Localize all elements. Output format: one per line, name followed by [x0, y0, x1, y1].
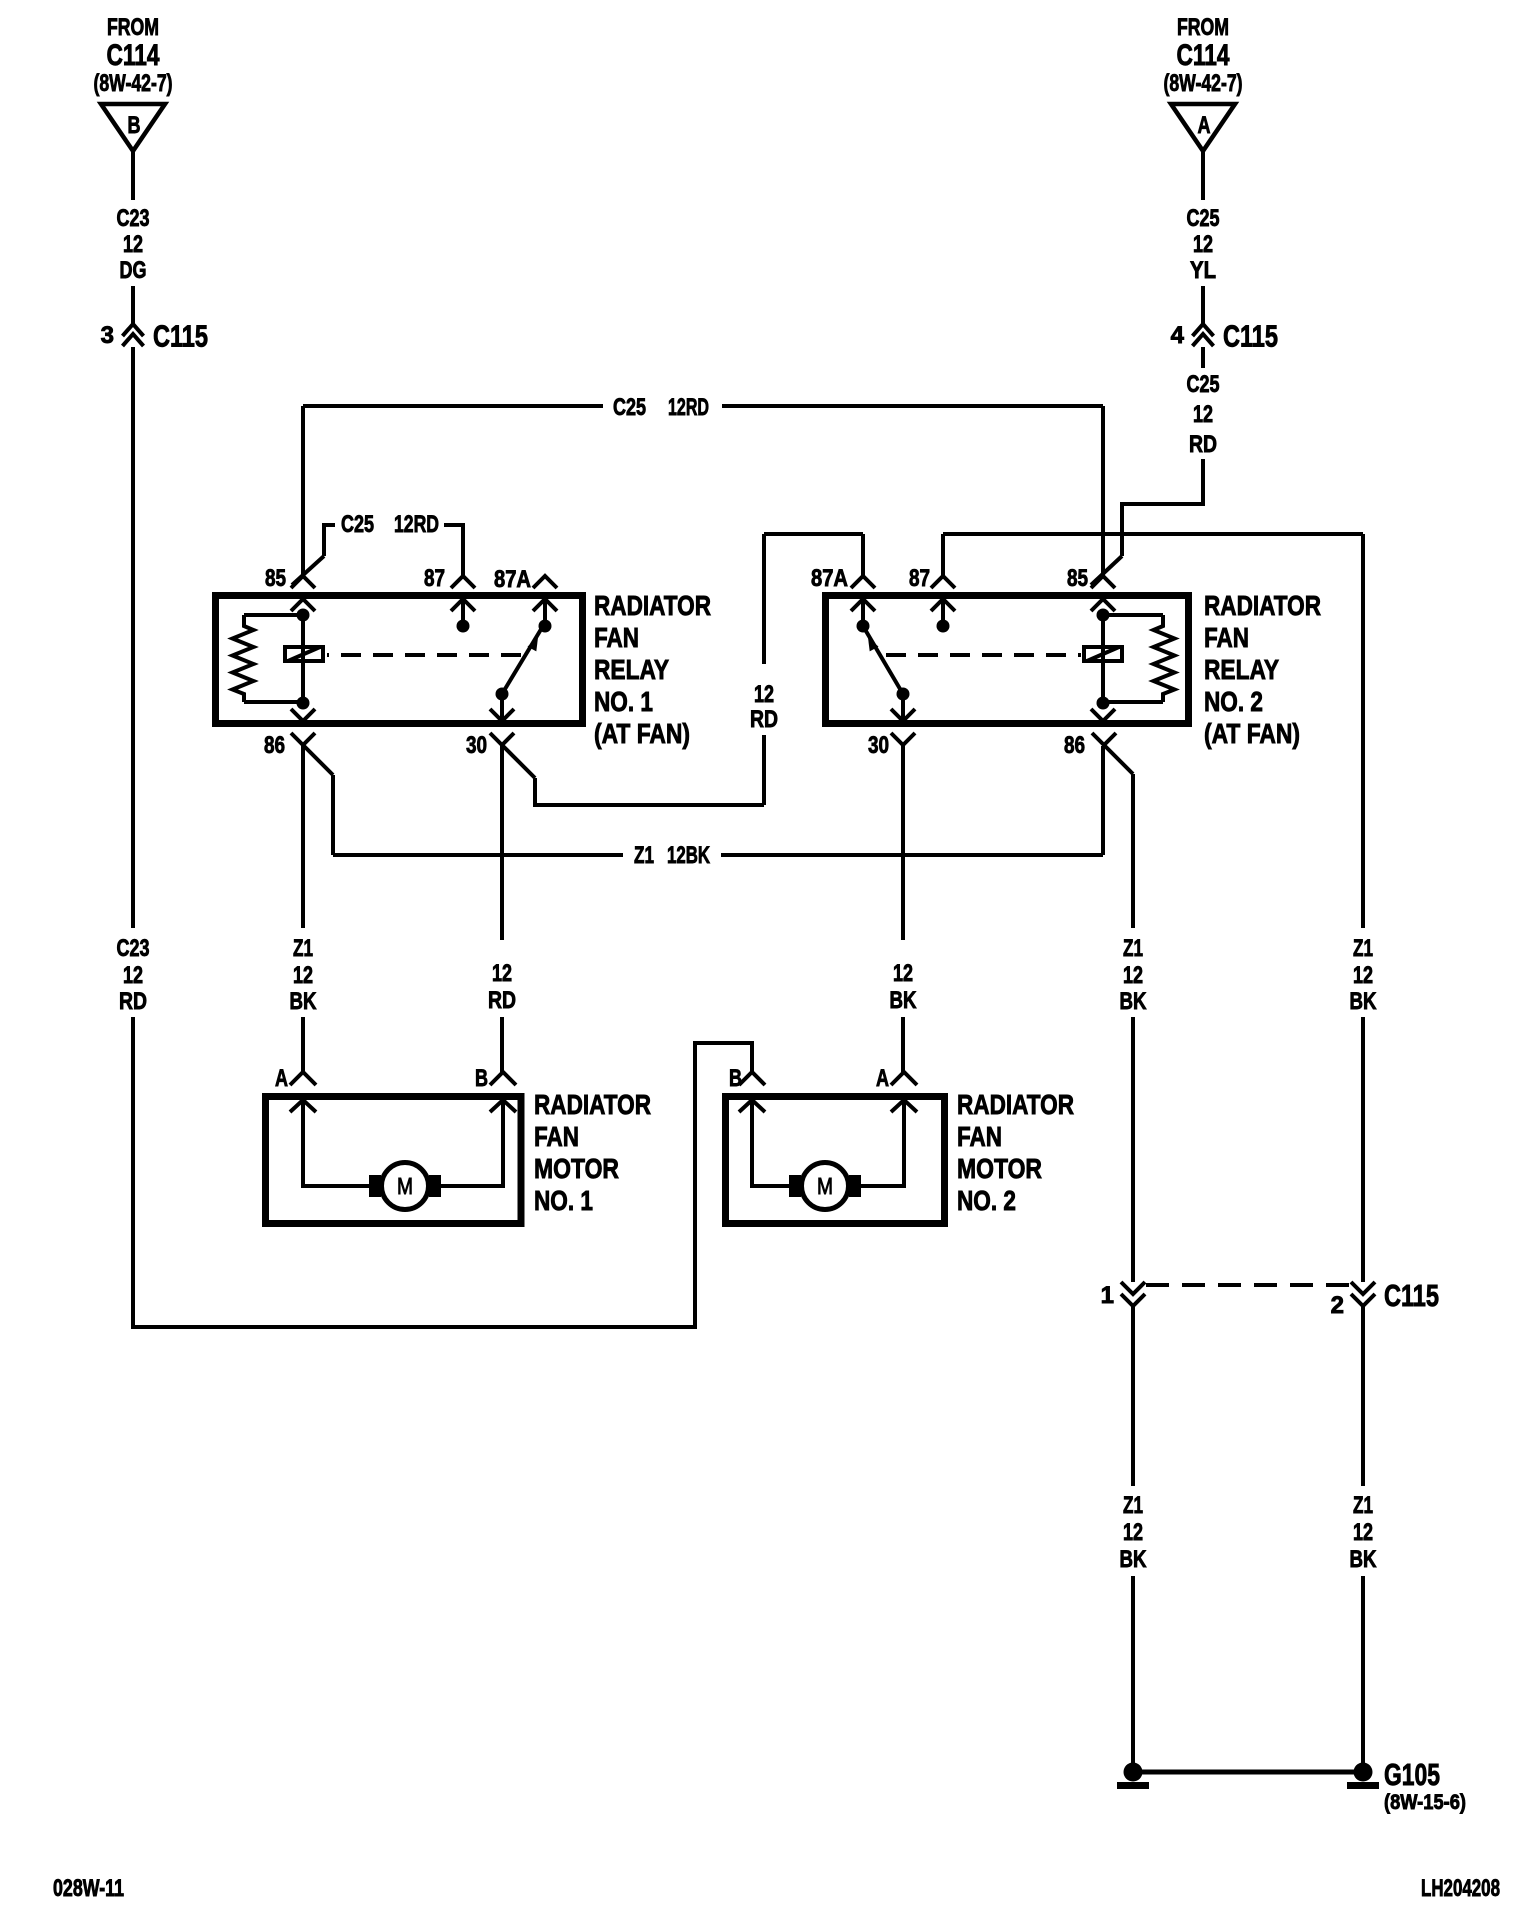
svg-text:12RD: 12RD [394, 511, 439, 538]
wire: C115 pin 3 down, circuit C23 12 RD [131, 347, 135, 928]
resistor (relay1 coil suppression), left side [244, 613, 303, 617]
svg-text:Z1: Z1 [634, 842, 654, 869]
svg-text:Z1: Z1 [1353, 935, 1373, 962]
svg-text:MOTOR: MOTOR [534, 1153, 619, 1184]
svg-text:RADIATOR: RADIATOR [957, 1089, 1074, 1120]
svg-text:12: 12 [754, 681, 774, 708]
wire: bus drop down to relay no.2 pin 85 [1101, 406, 1105, 576]
svg-text:028W-11: 028W-11 [53, 1875, 124, 1902]
motor M2 box: RADIATOR FAN MOTOR NO. 2 [726, 1097, 945, 1224]
svg-text:4: 4 [1171, 322, 1185, 349]
svg-text:FROM: FROM [1177, 14, 1229, 41]
svg-text:BK: BK [1350, 988, 1378, 1015]
relay K1 box: RADIATOR FAN RELAY NO. 1 [216, 596, 583, 724]
svg-text:RADIATOR: RADIATOR [534, 1089, 651, 1120]
wire: relay2 pin30 down (12 BK) to motor2 pin A [901, 745, 905, 940]
in-line connector C115 pin 1 (double chevron) [1121, 1282, 1145, 1294]
contact dot pin 87A, relay1 [539, 620, 552, 633]
svg-text:12: 12 [123, 231, 143, 258]
pin 86 inner chevron and dot, relay2 [1097, 697, 1110, 710]
svg-text:RELAY: RELAY [594, 654, 669, 685]
svg-text:FAN: FAN [594, 622, 639, 653]
svg-text:NO. 1: NO. 1 [594, 686, 653, 717]
motor1 armature circle with M [382, 1163, 429, 1210]
in-line connector C115 pin 4 (double chevron) [1193, 324, 1214, 336]
svg-text:12: 12 [1123, 1519, 1143, 1546]
svg-text:87: 87 [424, 565, 445, 592]
wire: C25 12RD bus, relay1 pin85 to relay2 pin85, left segment [303, 404, 603, 408]
svg-text:87A: 87A [811, 565, 848, 592]
svg-text:C115: C115 [1384, 1278, 1439, 1313]
svg-text:C115: C115 [153, 319, 208, 354]
pin A terminal chevrons, motor2 [891, 1072, 917, 1085]
svg-text:G105: G105 [1384, 1757, 1440, 1792]
pin B terminal chevrons, motor2 [739, 1072, 765, 1085]
svg-text:C25: C25 [613, 394, 646, 421]
pin 30 outer chevron, relay1 [490, 733, 514, 745]
svg-text:YL: YL [1190, 257, 1216, 284]
wire: C23 12RD routed right and up to radiator fan motor no.2 pin B [133, 1017, 752, 1327]
resistor (relay2 coil suppression), right side [1103, 613, 1163, 617]
contact dot pin 87, relay1 [457, 620, 470, 633]
wire: relay2 coil vertical pin85-pin86 [1101, 615, 1105, 702]
pin B terminal chevrons, motor1 [490, 1072, 516, 1085]
svg-text:C114: C114 [107, 39, 160, 72]
svg-text:DG: DG [120, 257, 147, 284]
svg-text:12: 12 [1353, 962, 1373, 989]
wire: switch pivot to pin 30 chevron, relay2 [901, 694, 905, 721]
wire: vertical into relay1 pin 85 from bus [301, 406, 305, 576]
pin 87A terminal chevrons, relay1 [533, 576, 557, 588]
svg-text:RD: RD [488, 987, 516, 1014]
pin 87 terminal chevrons, relay1 [451, 576, 475, 588]
svg-text:C25: C25 [341, 511, 374, 538]
svg-text:12: 12 [1353, 1519, 1373, 1546]
svg-text:(AT FAN): (AT FAN) [594, 718, 690, 749]
svg-text:NO. 1: NO. 1 [534, 1185, 593, 1216]
wire: C25 12RD routed left and down to relay no.2 pin 85 [1122, 459, 1203, 556]
svg-text:FAN: FAN [1204, 622, 1249, 653]
svg-text:87A: 87A [494, 566, 531, 593]
wire: drop to relay2 pin 87A [861, 534, 865, 576]
svg-text:BK: BK [290, 988, 318, 1015]
svg-text:C115: C115 [1223, 319, 1278, 354]
svg-text:A: A [1198, 112, 1211, 139]
wire: relay1 pin30 diagonal branch (12 RD) to relay2 pin 87A [502, 745, 535, 778]
svg-text:12: 12 [293, 962, 313, 989]
wire: pin 87A stub to contact dot, relay1 [543, 599, 547, 624]
pin 86 outer chevron, relay1 [291, 733, 315, 745]
junction dot pin85 top, relay2 [1097, 609, 1110, 622]
relay1 coil-to-switch dashed link [327, 653, 521, 657]
svg-text:A: A [275, 1065, 288, 1092]
svg-text:RD: RD [1189, 431, 1217, 458]
svg-text:3: 3 [101, 322, 114, 349]
svg-text:RELAY: RELAY [1204, 654, 1279, 685]
wire: relay1 coil vertical pin85-pin86 [301, 615, 305, 702]
motor1 brushes [369, 1175, 381, 1197]
svg-text:87: 87 [909, 565, 930, 592]
ground G105 right terminal dot and bar [1354, 1763, 1373, 1782]
motor M1 box: RADIATOR FAN MOTOR NO. 1 [266, 1097, 522, 1224]
svg-text:30: 30 [466, 732, 487, 759]
wire: motor1 internal pin B to brush [441, 1100, 503, 1186]
svg-text:M: M [397, 1173, 413, 1199]
wire: Z1 12BK bus left segment [333, 853, 623, 857]
svg-text:C25: C25 [1187, 205, 1220, 232]
svg-text:A: A [876, 1065, 889, 1092]
relay2 switch arm (30 to 87A) [897, 688, 910, 701]
svg-text:C25: C25 [1187, 371, 1220, 398]
pin 87A terminal chevrons, relay2 [851, 576, 875, 588]
wire: right Z1 12 BK bus down from y534 [1361, 534, 1365, 928]
svg-text:12: 12 [893, 960, 913, 987]
pin 87 terminal chevrons, relay2 [931, 576, 955, 588]
wire: Z1 12BK bus right segment to relay2 pin 86 [721, 853, 1103, 857]
pin 30 outer chevron, relay2 [891, 733, 915, 745]
svg-text:85: 85 [265, 565, 286, 592]
wire: lower Z1 to ground G105 right leg [1361, 1576, 1365, 1764]
wire: relay1 pin86 straight down (Z1 12 BK) to motor1 pin A [301, 745, 305, 928]
wire: label to connector C115 pin 4 [1201, 286, 1205, 324]
relay2 coil-to-switch dashed link [886, 653, 1081, 657]
relay1 switch arm (30 to 87A) [496, 688, 509, 701]
svg-text:RD: RD [119, 988, 147, 1015]
svg-text:C23: C23 [117, 935, 150, 962]
svg-text:BK: BK [1120, 1546, 1148, 1573]
svg-text:12RD: 12RD [668, 394, 709, 421]
wire: relay2 pin86 diagonal branch down to ground, Z1 12 BK [1104, 745, 1133, 774]
wire: relay2 pin 87 up and right to ground bus [941, 534, 945, 576]
svg-text:B: B [475, 1065, 488, 1092]
wire: pin 87 stub to contact dot, relay1 [461, 599, 465, 624]
svg-text:RADIATOR: RADIATOR [1204, 590, 1321, 621]
svg-text:Z1: Z1 [1123, 1492, 1143, 1519]
wire: C115 pin 4 down, circuit C25 12 RD [1201, 347, 1205, 368]
motor2 brushes [789, 1175, 801, 1197]
svg-text:1: 1 [1101, 1282, 1114, 1309]
svg-text:12: 12 [1193, 231, 1213, 258]
svg-text:(8W-42-7): (8W-42-7) [1164, 70, 1243, 97]
svg-text:M: M [817, 1173, 833, 1199]
ground G105 left terminal dot and bar [1124, 1763, 1143, 1782]
svg-text:BK: BK [1120, 988, 1148, 1015]
svg-text:86: 86 [264, 732, 285, 759]
svg-text:C23: C23 [117, 205, 150, 232]
wire: C25 12RD bus right segment [722, 404, 1103, 408]
relay2 coil box symbol [1084, 647, 1122, 661]
wire: pin 87 stub to contact dot, relay2 [941, 599, 945, 624]
pin 85 terminal chevrons, relay1 [291, 576, 315, 588]
relay1 coil box symbol [285, 647, 323, 661]
svg-text:RD: RD [750, 706, 778, 733]
svg-text:85: 85 [1067, 565, 1088, 592]
wire: switch pivot to pin 30 chevron, relay1 [500, 694, 504, 721]
svg-text:NO. 2: NO. 2 [957, 1185, 1016, 1216]
svg-text:FROM: FROM [107, 14, 159, 41]
svg-text:NO. 2: NO. 2 [1204, 686, 1263, 717]
wire: label to connector C115 pin 3 [131, 286, 135, 324]
svg-text:RADIATOR: RADIATOR [594, 590, 711, 621]
wire: relay1 pin86 diagonal branch to Z1 bus [303, 745, 333, 775]
wire: pin 87A stub to contact dot, relay2 [861, 599, 865, 624]
contact dot pin 87, relay2 [937, 620, 950, 633]
pin A terminal chevrons, motor1 [290, 1072, 316, 1085]
svg-text:FAN: FAN [957, 1121, 1002, 1152]
wire: connector2 to lower Z1 label [1361, 1306, 1365, 1486]
svg-text:30: 30 [868, 732, 889, 759]
junction dot pin85 top, relay1 [297, 609, 310, 622]
in-line connector C115 pin 3 (double chevron) [123, 324, 144, 336]
svg-text:BK: BK [1350, 1546, 1378, 1573]
svg-text:LH204208: LH204208 [1421, 1875, 1500, 1902]
wire: ground strap between G105 terminals [1133, 1770, 1363, 1775]
pin 86 outer chevron, relay2 [1092, 733, 1116, 745]
svg-text:12: 12 [1123, 962, 1143, 989]
wire: connector1 to lower Z1 label [1131, 1306, 1135, 1486]
contact dot pin 87A, relay2 [857, 620, 870, 633]
svg-text:2: 2 [1331, 1292, 1344, 1319]
svg-text:B: B [128, 112, 141, 139]
svg-text:B: B [729, 1065, 742, 1092]
dashed connector C115 body between pins 1 and 2 [1146, 1283, 1351, 1287]
svg-text:Z1: Z1 [1123, 935, 1143, 962]
svg-text:86: 86 [1064, 732, 1085, 759]
pin 30 inner chevron, relay1 [490, 709, 514, 721]
wire: motor2 internal pin A to brush [861, 1100, 904, 1186]
svg-text:12: 12 [1193, 401, 1213, 428]
svg-text:(AT FAN): (AT FAN) [1204, 718, 1300, 749]
off-page connector triangle A (from C114) [1171, 104, 1235, 151]
svg-text:12BK: 12BK [667, 842, 710, 869]
wire: triangle B down to label C23 12 DG [131, 151, 135, 200]
wire: lower Z1 to ground G105 left leg [1131, 1576, 1135, 1764]
svg-text:Z1: Z1 [293, 935, 313, 962]
pin 86 inner chevron and dot, relay1 [297, 697, 310, 710]
svg-text:(8W-42-7): (8W-42-7) [94, 70, 173, 97]
pin 85 terminal chevrons, relay2 [1091, 576, 1115, 588]
svg-text:FAN: FAN [534, 1121, 579, 1152]
pin 30 inner chevron, relay2 [891, 709, 915, 721]
svg-text:12: 12 [492, 960, 512, 987]
in-line connector C115 pin 2 (double chevron) [1351, 1282, 1375, 1294]
wire: relay1 pin30 straight down (12 RD) to motor1 pin B [500, 745, 504, 940]
wire: motor2 internal pin B to brush [752, 1100, 790, 1186]
svg-text:MOTOR: MOTOR [957, 1153, 1042, 1184]
wire: diagonal into relay no.2 pin 85 [1091, 556, 1122, 585]
svg-text:C114: C114 [1177, 39, 1230, 72]
svg-text:12: 12 [123, 962, 143, 989]
wire: triangle A down to label C25 12 YL [1201, 151, 1205, 200]
svg-text:BK: BK [890, 987, 918, 1014]
svg-text:Z1: Z1 [1353, 1492, 1373, 1519]
off-page connector triangle B (from C114) [101, 104, 165, 151]
relay K2 box: RADIATOR FAN RELAY NO. 2 [826, 596, 1189, 724]
svg-text:(8W-15-6): (8W-15-6) [1384, 1791, 1466, 1814]
wire: motor1 internal pin A to brush [303, 1100, 369, 1186]
motor2 armature circle with M [802, 1163, 849, 1210]
